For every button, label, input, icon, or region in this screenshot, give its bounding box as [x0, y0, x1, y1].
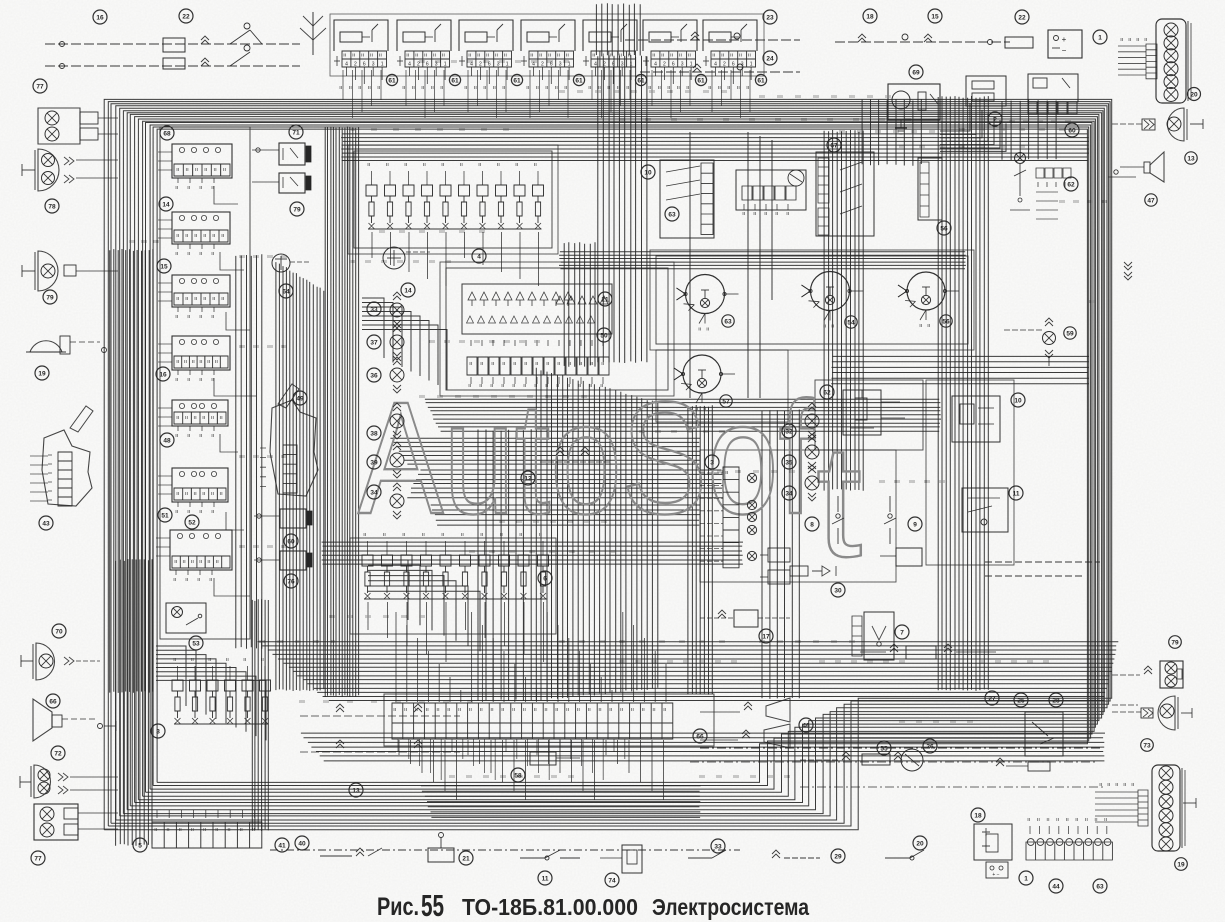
svg-text:2: 2 — [417, 62, 420, 68]
wire bundle: comb into bottom connector strip — [396, 612, 666, 702]
fuel sender 42 — [901, 749, 923, 771]
fuse panel F3 (lower left) feed comb — [178, 666, 266, 680]
power unit terminals — [986, 862, 1008, 878]
callout 4 — [472, 249, 486, 263]
callout 47 — [1145, 194, 1157, 206]
callout 38 — [367, 426, 381, 440]
wire into lamp 59 — [1004, 329, 1042, 331]
svg-text:17: 17 — [762, 633, 770, 640]
callout 20 — [1188, 88, 1201, 101]
svg-text:41: 41 — [278, 842, 286, 849]
wire: dashed mid-right wires — [985, 561, 1100, 563]
harness loop around centre-right distribution — [700, 450, 896, 582]
svg-text:49: 49 — [296, 395, 304, 402]
callout 7 — [895, 625, 909, 639]
svg-text:18: 18 — [866, 13, 874, 20]
svg-text:4: 4 — [714, 62, 717, 68]
callout 58 — [511, 768, 525, 782]
relay K79 feed wire — [252, 181, 279, 183]
svg-text:1: 1 — [1024, 875, 1028, 882]
svg-text:1: 1 — [1098, 34, 1102, 41]
relay K11 — [962, 488, 1008, 532]
terminal row of central module — [467, 357, 609, 375]
svg-text:3: 3 — [681, 62, 684, 68]
svg-text:57: 57 — [722, 398, 730, 405]
wire bundle: left harness lower — [116, 559, 152, 846]
svg-text:3: 3 — [621, 62, 624, 68]
svg-text:1: 1 — [506, 62, 509, 68]
wire bundle: comb below bottom connector strip — [399, 740, 664, 800]
svg-text:77: 77 — [34, 855, 42, 862]
turn lamp column left (over watermark A) — [393, 296, 401, 300]
svg-text:54: 54 — [847, 319, 855, 326]
svg-text:34: 34 — [785, 490, 793, 497]
svg-text:60: 60 — [1068, 127, 1076, 134]
fuse panel F3 (lower left) lower contacts — [175, 718, 269, 724]
harness loop around gauge group — [656, 256, 968, 344]
svg-text:61: 61 — [388, 77, 396, 84]
svg-text:34: 34 — [370, 489, 378, 496]
callout 1 — [1093, 30, 1107, 44]
svg-text:33: 33 — [714, 843, 722, 850]
callout 8 — [805, 517, 819, 531]
svg-text:14: 14 — [162, 201, 170, 208]
horn pair 46 — [766, 698, 790, 722]
relay K71 feed wire — [252, 149, 279, 151]
svg-text:16: 16 — [159, 371, 167, 378]
wire bundle: centre band b — [407, 470, 722, 498]
svg-text:62: 62 — [823, 389, 831, 396]
wire bundle: centre band c — [322, 542, 744, 564]
right resistor chain — [1036, 192, 1058, 219]
callout 46 — [799, 718, 813, 732]
relay K79 — [279, 173, 305, 193]
callout 14 — [401, 283, 415, 297]
arrow connector to E73 bottom — [1141, 708, 1153, 718]
svg-text:4: 4 — [477, 253, 481, 260]
callout 66 — [46, 694, 60, 708]
svg-text:33: 33 — [370, 306, 378, 313]
lamp E70 — [36, 643, 55, 680]
lamp E73 half-moon bottom — [1158, 696, 1175, 730]
wire bundle: centre verticals below stair — [478, 429, 531, 701]
wire bundle: stair top-right — [940, 103, 1006, 151]
callout 27 — [985, 691, 999, 705]
fuse panel F6 lower contacts — [365, 593, 547, 599]
wire bundle: lower dark band — [257, 642, 1118, 701]
svg-text:+: + — [1062, 35, 1067, 44]
svg-text:35: 35 — [785, 459, 793, 466]
callout 61 — [635, 74, 646, 85]
svg-text:8: 8 — [810, 521, 814, 528]
svg-text:22: 22 — [182, 13, 190, 20]
svg-text:71: 71 — [292, 129, 300, 136]
svg-text:3: 3 — [156, 728, 160, 735]
callout 78 — [45, 199, 59, 213]
callout 61 — [449, 74, 460, 85]
distribution strip 3a — [723, 467, 739, 568]
wire bundle: risers above gauges — [690, 132, 772, 398]
svg-text:69: 69 — [912, 69, 920, 76]
connector block 16 — [172, 336, 230, 370]
wire bundle: centre-right riser — [688, 405, 712, 695]
connector block 51 — [172, 468, 228, 502]
svg-text:38: 38 — [370, 430, 378, 437]
callout 43 — [39, 516, 53, 530]
svg-text:72: 72 — [54, 750, 62, 757]
callout 6 — [538, 571, 552, 585]
wire bundle: outer harness rings (left/top/right/bottom) — [104, 99, 1111, 829]
wire bundle: vertical harness left of fuse panel — [325, 126, 358, 697]
wire bundle: band above gauges — [559, 252, 966, 269]
callout 1 — [1019, 871, 1033, 885]
diode board module 21 — [462, 284, 612, 334]
svg-text:74: 74 — [608, 877, 616, 884]
connector block 14 — [172, 212, 230, 244]
relay K60b — [280, 509, 306, 528]
svg-text:7: 7 — [900, 629, 904, 636]
fuse panel F3 (lower left) — [172, 680, 271, 691]
svg-text:53: 53 — [192, 640, 200, 647]
switch S24 wire — [640, 71, 800, 73]
svg-text:AutoSof: AutoSof — [358, 368, 814, 547]
connector block X7 (instrument) — [703, 20, 757, 51]
svg-text:4: 4 — [408, 62, 411, 68]
callout 60 — [284, 534, 298, 548]
svg-text:48: 48 — [163, 437, 171, 444]
wire bundle: central vertical harness — [536, 368, 658, 700]
wire bundle: bottom-left feeder — [252, 599, 268, 831]
connector block 52 — [170, 530, 232, 570]
svg-text:51: 51 — [161, 512, 169, 519]
lamp cluster E20 feed wires — [1118, 46, 1146, 75]
callout 48 — [160, 433, 174, 447]
callout 56 — [937, 221, 951, 235]
sender B14 round — [383, 247, 405, 269]
svg-text:2: 2 — [541, 62, 544, 68]
svg-text:29: 29 — [834, 853, 842, 860]
wire number labels scatter — [130, 60, 1106, 778]
connector block X5 (instrument) — [583, 20, 637, 51]
svg-text:12: 12 — [524, 475, 532, 482]
column switch S49 — [270, 400, 318, 496]
interior lamp unit 53 — [166, 603, 206, 633]
callout 22 — [179, 9, 193, 23]
svg-text:30: 30 — [834, 587, 842, 594]
svg-text:3: 3 — [710, 459, 714, 466]
lamp block E77b — [34, 804, 78, 840]
svg-text:26: 26 — [926, 743, 934, 750]
wire bundle: left vertical harness (extra density) — [110, 249, 153, 693]
component K22 box b — [163, 58, 185, 69]
svg-text:6: 6 — [612, 62, 615, 68]
callout 60 — [1065, 123, 1079, 137]
connector block X1 (instrument) — [334, 20, 388, 51]
callout 61 — [695, 74, 706, 85]
power unit 15b — [974, 824, 1012, 860]
connector block 68 — [172, 144, 232, 178]
svg-text:4: 4 — [345, 62, 348, 68]
svg-text:77: 77 — [36, 83, 44, 90]
callout 32 — [782, 424, 796, 438]
callout 56 — [940, 315, 952, 327]
fuse panel F6 feed comb — [368, 541, 544, 555]
wire bundle: right vertical harness — [938, 96, 988, 691]
svg-text:64: 64 — [282, 288, 290, 295]
dome lamp E19 — [30, 341, 62, 352]
callout 55 — [877, 741, 891, 755]
callout 9 — [908, 517, 922, 531]
callout 11 — [1009, 486, 1023, 500]
svg-text:+ −: + − — [992, 872, 999, 878]
callout 72 — [51, 746, 65, 760]
connector block X6 (instrument) — [643, 20, 697, 51]
svg-text:22: 22 — [1018, 14, 1026, 21]
wire bundle: centre column upper — [598, 55, 647, 363]
svg-text:61: 61 — [757, 77, 765, 84]
switch S18 wire — [835, 41, 1010, 43]
callout 17 — [759, 629, 773, 643]
wire bundle: lower band 2 — [301, 733, 1105, 761]
callout 13 — [349, 783, 363, 797]
svg-text:16: 16 — [96, 14, 104, 21]
svg-text:14: 14 — [404, 287, 412, 294]
svg-text:78: 78 — [48, 203, 56, 210]
svg-text:66: 66 — [49, 698, 57, 705]
svg-text:61: 61 — [697, 77, 705, 84]
relay assembly K60 — [1028, 74, 1078, 102]
wire bundle: bottom centre band — [421, 786, 701, 818]
arrow connector to E73 — [1142, 119, 1155, 130]
svg-text:19: 19 — [1177, 861, 1185, 868]
wire bends from left blocks to feeder — [214, 186, 256, 596]
callout 28 — [1049, 693, 1063, 707]
callout 63 — [1093, 879, 1107, 893]
horn B47 — [1150, 152, 1164, 182]
gauge P54 — [811, 272, 850, 311]
callout 77 — [31, 851, 45, 865]
svg-text:3: 3 — [497, 62, 500, 68]
harness loop around left connector column — [160, 127, 250, 639]
svg-text:1: 1 — [381, 62, 384, 68]
callout 63 — [722, 315, 734, 327]
svg-text:61: 61 — [575, 77, 583, 84]
wire bundle: comb under top connector blocks — [343, 70, 750, 118]
callout 68 — [160, 126, 174, 140]
callout 13 — [1185, 152, 1197, 164]
callout 71 — [289, 125, 303, 139]
callout 76 — [284, 574, 298, 588]
callout 12 — [521, 471, 535, 485]
callout 35 — [782, 455, 796, 469]
svg-text:−: − — [1062, 46, 1067, 55]
turn lamp column right — [808, 407, 816, 411]
relay 35b mid-right — [896, 548, 922, 566]
svg-text:2: 2 — [993, 116, 997, 123]
svg-text:2: 2 — [663, 62, 666, 68]
svg-text:61: 61 — [637, 77, 645, 84]
flasher 21b bottom — [428, 848, 454, 862]
fuse panel F4 lower contacts — [369, 223, 542, 229]
svg-text:6: 6 — [488, 62, 491, 68]
module 10 (regulator) — [660, 160, 714, 238]
diode 30 symbol — [812, 566, 836, 576]
svg-text:28: 28 — [1052, 697, 1060, 704]
svg-text:43: 43 — [42, 520, 50, 527]
switch unit 28 — [1025, 712, 1063, 756]
svg-text:20: 20 — [1190, 91, 1198, 98]
svg-text:11: 11 — [1013, 490, 1020, 497]
svg-text:4: 4 — [654, 62, 657, 68]
svg-text:10: 10 — [644, 169, 652, 176]
column switch S43 connector — [58, 452, 72, 506]
callout 77 — [33, 79, 47, 93]
svg-text:3: 3 — [372, 62, 375, 68]
strip 3a lamps — [747, 473, 756, 482]
horn B66 — [33, 699, 52, 741]
callout 15 — [157, 259, 171, 273]
svg-text:52: 52 — [188, 519, 196, 526]
svg-text:13: 13 — [352, 787, 360, 794]
callout 19 — [1175, 858, 1188, 871]
callout 34 — [367, 485, 381, 499]
svg-text:46: 46 — [802, 722, 810, 729]
svg-text:6: 6 — [732, 62, 735, 68]
svg-text:4: 4 — [532, 62, 535, 68]
connector block X2 (instrument) — [397, 20, 451, 51]
harness loop around top row blocks — [330, 14, 764, 76]
svg-text:6: 6 — [550, 62, 553, 68]
callout 53 — [189, 636, 203, 650]
callout 36 — [367, 368, 381, 382]
svg-text:50: 50 — [600, 332, 608, 339]
lamp cluster E19 feed wires — [1095, 792, 1138, 822]
wire bundle: verticals top right corner — [1002, 99, 1056, 160]
svg-text:6: 6 — [672, 62, 675, 68]
strip 3a feed wires — [700, 473, 723, 561]
svg-text:2: 2 — [354, 62, 357, 68]
callout 29 — [831, 849, 845, 863]
relay K71 — [279, 143, 305, 165]
svg-text:Рис.: Рис. — [377, 893, 419, 921]
callout 62 — [1064, 177, 1078, 191]
switch S40 bottom — [320, 855, 352, 857]
component K22 box a — [163, 38, 185, 52]
svg-text:6: 6 — [363, 62, 366, 68]
svg-text:47: 47 — [1147, 197, 1155, 204]
callout 79 — [43, 290, 57, 304]
headlamp E78 — [38, 149, 59, 191]
module 56b strip — [918, 158, 942, 220]
wire bundle: stair into instrument module — [362, 298, 447, 390]
harness loop around bottom connector strip — [384, 694, 714, 746]
svg-text:10: 10 — [1014, 397, 1022, 404]
callout 22 — [1015, 10, 1029, 24]
svg-text:1: 1 — [444, 62, 447, 68]
svg-text:3: 3 — [559, 62, 562, 68]
connector block 15 — [172, 275, 230, 307]
svg-text:63: 63 — [668, 211, 676, 218]
svg-text:62: 62 — [1067, 181, 1075, 188]
svg-text:55: 55 — [421, 888, 444, 922]
fuse panel F4 — [366, 185, 544, 196]
turn arrows right edge — [1124, 262, 1132, 266]
relay K62 — [843, 390, 881, 435]
connector block 48 — [172, 400, 228, 426]
svg-text:24: 24 — [766, 55, 774, 62]
switch S15 — [924, 38, 932, 42]
connector block X4 (instrument) — [521, 20, 575, 51]
callout 3 — [705, 455, 719, 469]
callout 73 — [1141, 739, 1154, 752]
svg-text:23: 23 — [766, 14, 774, 21]
svg-text:37: 37 — [370, 339, 378, 346]
callout 33 — [367, 302, 381, 316]
callout 18 — [971, 808, 985, 822]
svg-text:44: 44 — [1052, 883, 1060, 890]
switch S16 lever — [250, 30, 262, 44]
svg-text:25: 25 — [1017, 697, 1025, 704]
component 58 bottom — [530, 752, 556, 765]
callout 74 — [605, 873, 619, 887]
callout 41 — [275, 838, 289, 852]
module 63b with transistor — [679, 165, 681, 167]
wire bundle: mid horizontal band — [425, 399, 941, 431]
headlamp E77 — [38, 108, 80, 144]
svg-text:2: 2 — [603, 62, 606, 68]
connector block X3 (instrument) — [459, 20, 513, 51]
callout 5 — [133, 838, 147, 852]
callout 25 — [1014, 693, 1028, 707]
lamp cluster E19 tail — [1183, 802, 1196, 804]
svg-text:18: 18 — [974, 812, 982, 819]
svg-text:15: 15 — [931, 13, 939, 20]
wire bundle: comb under fuse panel F6 — [368, 602, 544, 662]
fuse small bottom right — [1028, 762, 1050, 771]
wire bundle: verticals under battery — [862, 99, 921, 166]
long connector strip 66 (two rows) — [392, 703, 673, 739]
switch 20b bottom — [885, 857, 910, 859]
wire bundle: upper horizontal band 2 — [341, 134, 1089, 161]
svg-text:60: 60 — [287, 538, 295, 545]
svg-text:9: 9 — [913, 521, 917, 528]
svg-text:13: 13 — [1187, 155, 1195, 162]
column switch S43 — [42, 430, 92, 506]
wire bundle: wires to top edge — [596, 3, 640, 56]
diode board lower row — [467, 316, 595, 323]
callout 61 — [573, 74, 584, 85]
ground under motor — [900, 120, 902, 128]
svg-text:79: 79 — [46, 294, 54, 301]
svg-text:1: 1 — [750, 62, 753, 68]
callout 57 — [720, 395, 732, 407]
callout 21 — [459, 851, 473, 865]
svg-text:4: 4 — [594, 62, 597, 68]
svg-text:2: 2 — [723, 62, 726, 68]
svg-text:39: 39 — [370, 459, 378, 466]
svg-text:55: 55 — [880, 745, 888, 752]
callout 62 — [820, 385, 834, 399]
lamp E79 — [38, 251, 58, 291]
strip 66 lower comb — [398, 739, 625, 780]
svg-text:79: 79 — [293, 206, 301, 213]
callout 54 — [845, 316, 857, 328]
lamp cluster E20 connector cells — [1146, 44, 1157, 79]
svg-text:21: 21 — [462, 855, 470, 862]
callout 61 — [386, 74, 397, 85]
resistor R22 top — [1005, 37, 1033, 48]
fuse panel F6 — [362, 555, 549, 566]
